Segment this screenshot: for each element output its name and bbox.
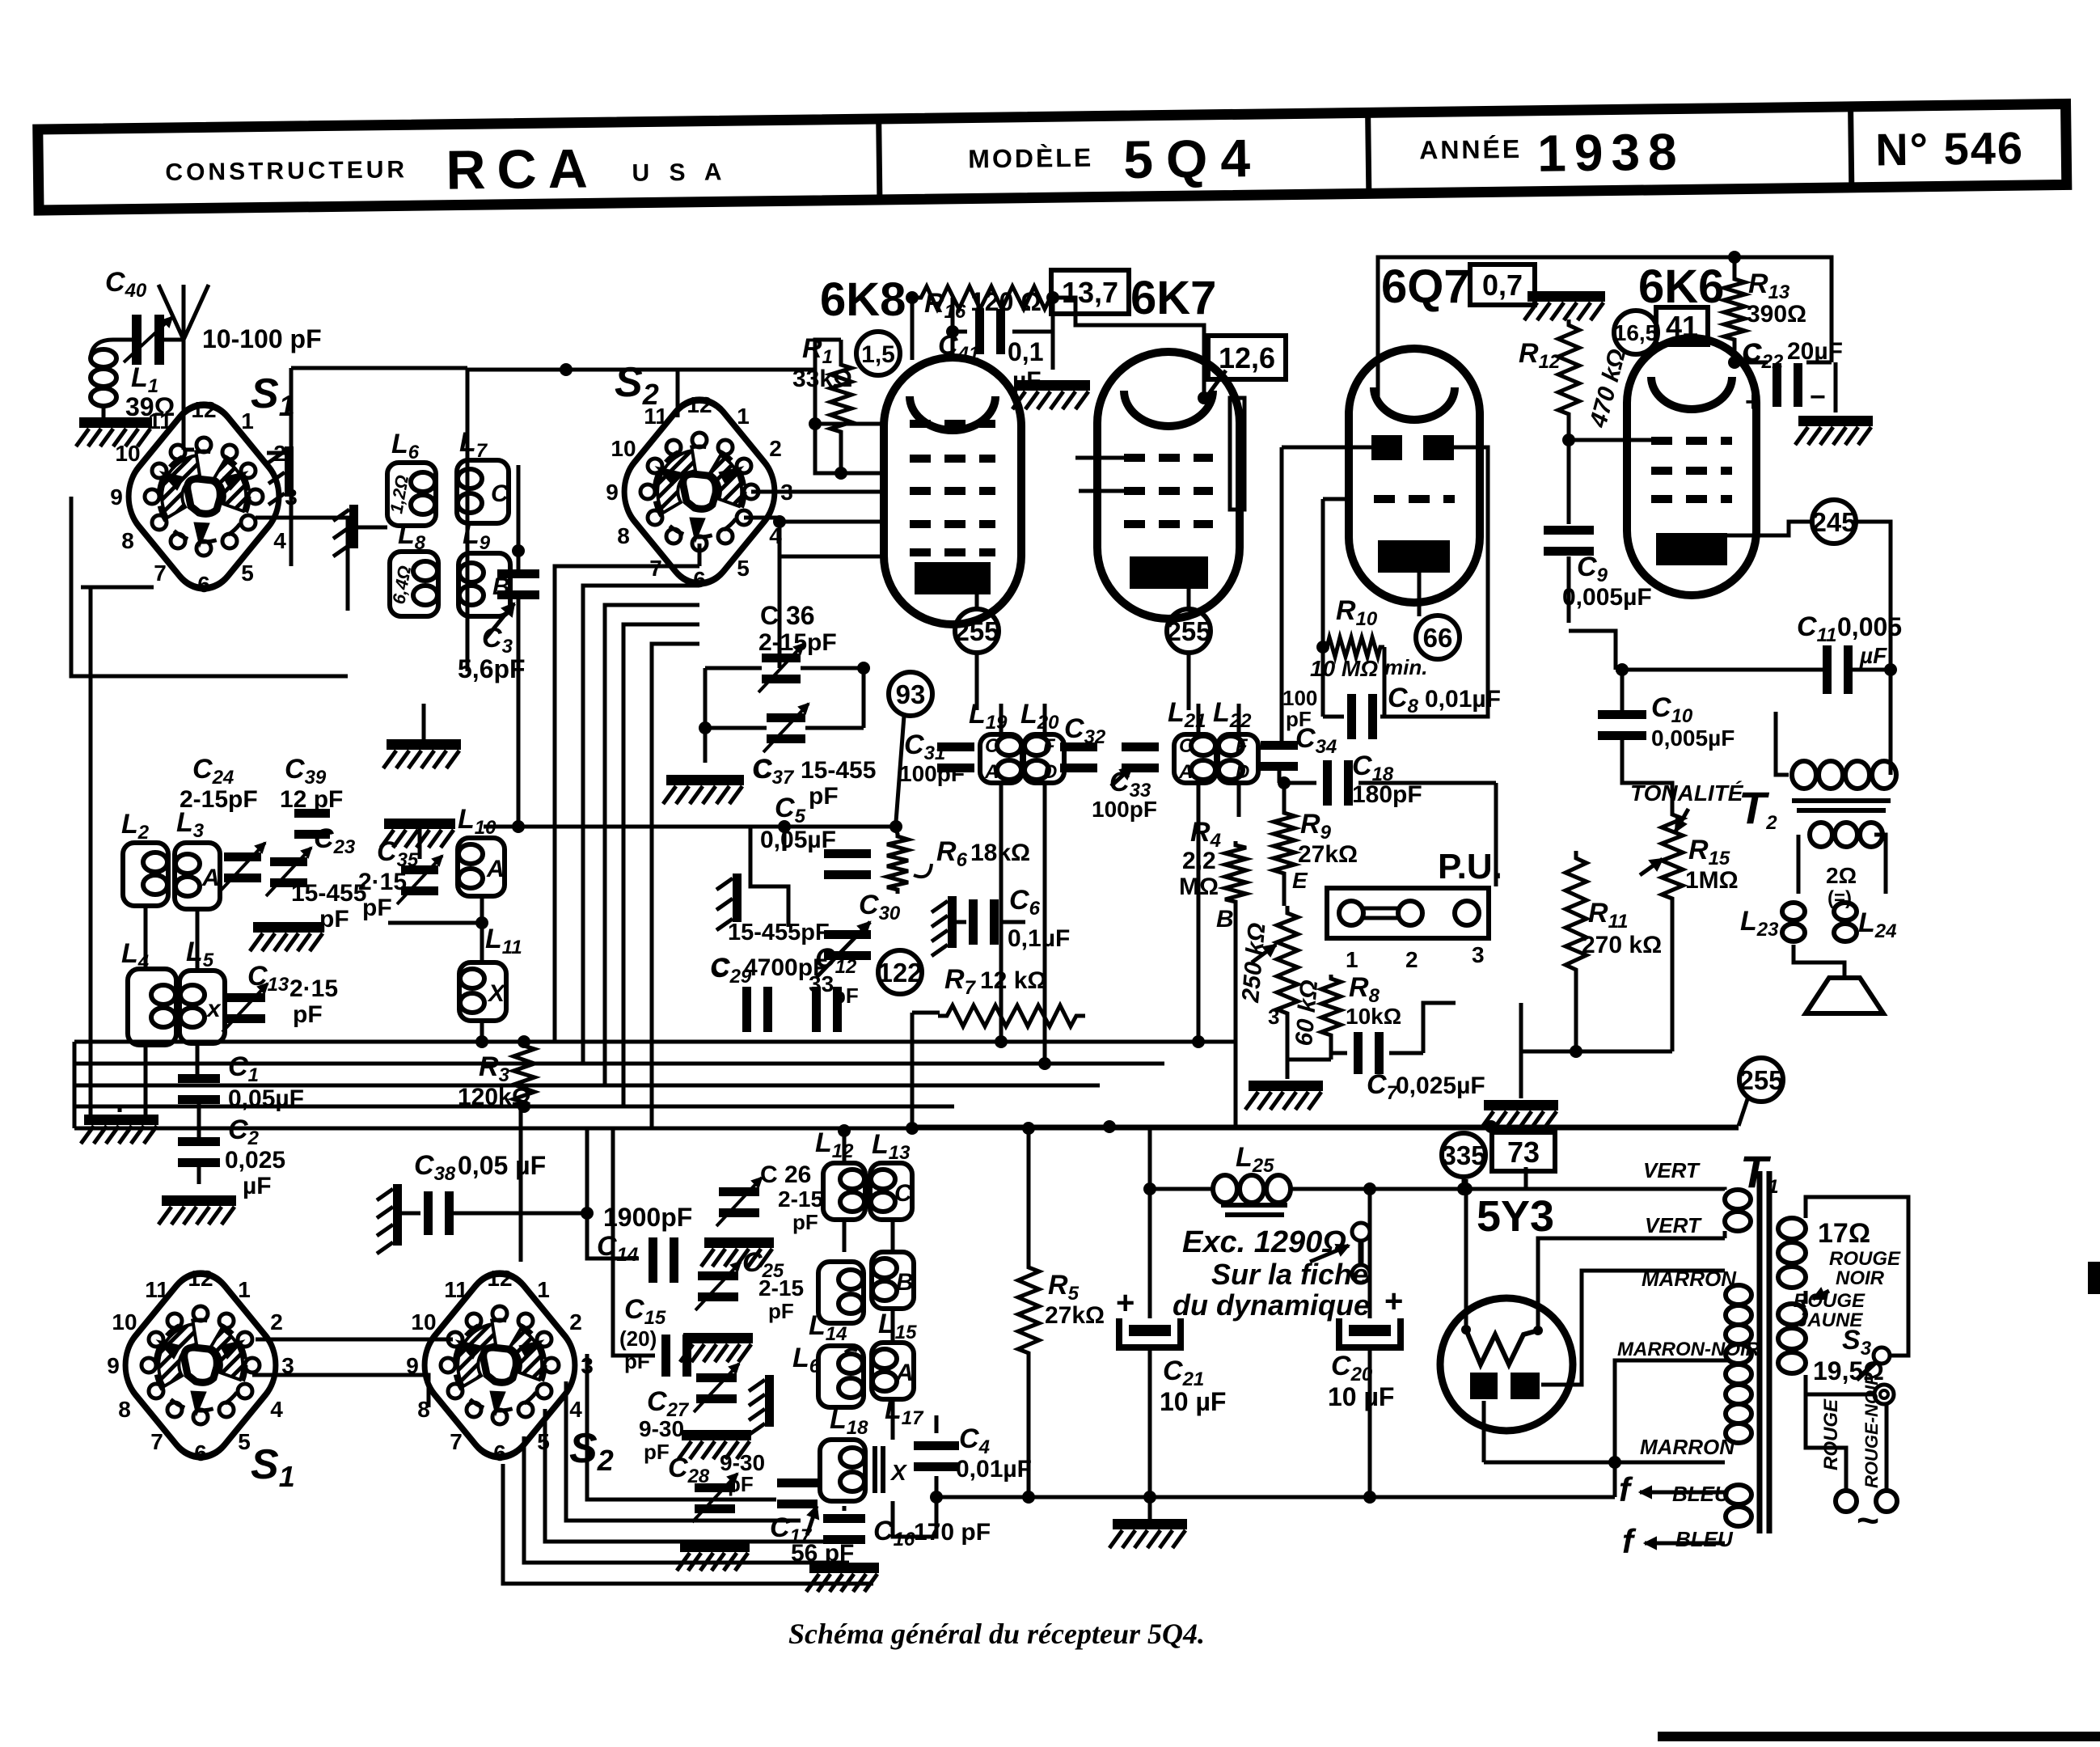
svg-text:(20): (20) — [619, 1326, 657, 1351]
trimmer C28 — [668, 1450, 765, 1522]
capacitor C34 — [1261, 686, 1337, 771]
svg-text:−: − — [1810, 382, 1826, 412]
border frame — [1658, 1262, 2100, 1741]
capacitor C21 — [1116, 1285, 1226, 1416]
circle 66 — [1416, 615, 1460, 659]
ground under C23 — [250, 922, 324, 951]
svg-text:5Q4: 5Q4 — [1123, 128, 1264, 189]
svg-text:10: 10 — [611, 436, 636, 461]
svg-text:pF: pF — [293, 1001, 323, 1028]
wire T1 primary — [1806, 1197, 1908, 1491]
svg-text:pF: pF — [644, 1440, 670, 1464]
coil L22 — [1213, 697, 1258, 783]
svg-text:RCA: RCA — [446, 137, 599, 201]
svg-text:C 36: C 36 — [760, 601, 815, 630]
variable capacitor C37 — [752, 704, 876, 810]
coil L19 — [969, 699, 1022, 783]
coil L17 — [872, 1343, 924, 1429]
svg-text:170 pF: 170 pF — [914, 1519, 991, 1546]
coil L5 — [180, 937, 225, 1043]
capacitor C29 — [710, 953, 827, 1032]
svg-text:2: 2 — [270, 1309, 283, 1335]
label ROUGE JAUNE — [1794, 1290, 1865, 1331]
capacitor C10 — [1598, 692, 1735, 751]
svg-text:6K8: 6K8 — [820, 273, 906, 326]
svg-text:µF: µF — [243, 1173, 272, 1199]
svg-text:MARRON: MARRON — [1640, 1435, 1735, 1459]
circle 93 — [889, 672, 932, 822]
potentiometer R15 1MΩ — [1640, 809, 1739, 904]
svg-text:5Y3: 5Y3 — [1477, 1192, 1554, 1241]
svg-text:0,05µF: 0,05µF — [760, 827, 836, 853]
svg-text:ROUGE: ROUGE — [1820, 1398, 1842, 1470]
chassis plate C38 — [377, 1184, 420, 1254]
core X L18 — [875, 1446, 908, 1493]
svg-text:6Q7: 6Q7 — [1381, 260, 1470, 313]
capacitor C8 — [1347, 683, 1501, 739]
ground under C22 — [1795, 416, 1873, 445]
svg-text:A: A — [984, 761, 999, 783]
svg-text:100pF: 100pF — [1092, 797, 1157, 822]
svg-text:C: C — [491, 480, 509, 507]
header title box — [38, 104, 2067, 210]
ground 6K7 left — [1012, 380, 1090, 409]
svg-text:390Ω: 390Ω — [1747, 301, 1806, 328]
svg-text:13,7: 13,7 — [1062, 276, 1118, 309]
svg-text:4: 4 — [270, 1397, 283, 1422]
svg-text:pF: pF — [362, 895, 392, 921]
resistor R3 — [458, 1042, 535, 1110]
ground pot — [1245, 1081, 1323, 1110]
svg-text:VERT: VERT — [1645, 1213, 1702, 1237]
svg-text:335: 335 — [1441, 1140, 1485, 1170]
svg-text:12: 12 — [487, 1266, 512, 1291]
svg-text:11: 11 — [145, 1277, 169, 1302]
svg-text:X: X — [889, 1460, 908, 1485]
svg-text:12: 12 — [687, 392, 712, 417]
svg-text:8: 8 — [617, 523, 630, 548]
ground right — [1481, 1100, 1558, 1129]
coil L2 — [121, 809, 168, 906]
label TONALITE — [1630, 780, 1744, 831]
T2 primary — [1792, 761, 1896, 810]
capacitor C32 — [1060, 713, 1106, 772]
coil L21 — [1168, 697, 1216, 783]
capacitor C5 — [760, 793, 871, 879]
svg-text:+: + — [1116, 1285, 1135, 1321]
coil L15 — [872, 1252, 917, 1343]
svg-text:0,05 µF: 0,05 µF — [458, 1151, 546, 1180]
coil L13 — [870, 1129, 913, 1220]
T1 winding 17Ω (primary top) — [1778, 1218, 1870, 1288]
ground above C35 — [381, 819, 455, 859]
coil L23 — [1740, 903, 1805, 941]
rotary switch S1 (top) — [110, 370, 298, 606]
coil L16 — [792, 1343, 864, 1407]
pickup P.U. — [1327, 847, 1502, 972]
chassis plate C30 — [716, 873, 742, 930]
antenna — [158, 285, 209, 450]
svg-text:4: 4 — [569, 1397, 582, 1422]
wire C36 loop — [699, 544, 870, 763]
ground above R12 — [1524, 291, 1605, 320]
svg-text:(=): (=) — [1827, 887, 1852, 909]
svg-text:180pF: 180pF — [1352, 781, 1422, 808]
T2 secondary — [1810, 823, 1882, 847]
trimmer C13 — [222, 961, 338, 1032]
svg-text:16,5: 16,5 — [1614, 320, 1658, 345]
svg-text:ROUGE: ROUGE — [1829, 1248, 1901, 1270]
svg-text:27kΩ: 27kΩ — [1045, 1302, 1105, 1329]
svg-text:VERT: VERT — [1643, 1158, 1701, 1182]
coil L11 — [388, 896, 522, 1042]
svg-text:2: 2 — [1405, 947, 1418, 972]
coil L1 — [91, 340, 175, 421]
svg-text:33: 33 — [809, 971, 834, 996]
capacitor C36 — [758, 601, 837, 692]
svg-text:Schéma général du récepteur: Schéma général du récepteur 5Q4. — [788, 1618, 1205, 1650]
resistor R16 120Ω — [912, 286, 1059, 323]
svg-text:E: E — [1292, 868, 1308, 893]
svg-text:Sur la fiche: Sur la fiche — [1211, 1258, 1368, 1291]
coil L24 — [1826, 863, 1896, 942]
coil L14 — [809, 1262, 864, 1345]
svg-text:1,5: 1,5 — [861, 341, 895, 368]
caption — [788, 1618, 1205, 1650]
svg-text:A: A — [201, 865, 220, 891]
svg-text:B: B — [1216, 906, 1234, 933]
ground under C27 — [678, 1430, 751, 1459]
capacitor C16 — [823, 1514, 991, 1550]
svg-text:12: 12 — [188, 1266, 213, 1291]
svg-text:6: 6 — [194, 1440, 207, 1466]
capacitor C11 — [1797, 611, 1902, 694]
svg-text:0,1: 0,1 — [1008, 337, 1043, 366]
svg-text:2-15: 2-15 — [758, 1275, 804, 1301]
box 12,6 — [1208, 336, 1286, 379]
box 0,7 — [1470, 264, 1535, 305]
svg-text:9: 9 — [606, 480, 619, 505]
svg-text:1: 1 — [737, 404, 750, 429]
svg-text:0,025µF: 0,025µF — [1396, 1072, 1485, 1099]
coil L9 — [458, 519, 510, 616]
label ROUGE vertical — [1820, 1398, 1842, 1470]
svg-text:10-100 pF: 10-100 pF — [202, 324, 322, 353]
svg-text:1: 1 — [537, 1277, 550, 1302]
svg-text:3: 3 — [1472, 942, 1485, 967]
svg-text:122: 122 — [877, 958, 922, 988]
svg-text:+: + — [1745, 387, 1761, 417]
svg-text:15-455pF: 15-455pF — [728, 920, 830, 945]
svg-text:7: 7 — [450, 1429, 463, 1454]
trimmer C23 — [266, 823, 356, 896]
capacitor C4 — [914, 1423, 1032, 1483]
circle 122 — [877, 950, 922, 994]
resistor R1 33kΩ — [792, 333, 852, 437]
svg-text:pF: pF — [768, 1299, 794, 1323]
svg-text:+: + — [1384, 1284, 1403, 1319]
svg-text:8: 8 — [121, 528, 134, 553]
coil L7 — [457, 427, 509, 523]
capacitor C2 — [178, 1115, 285, 1199]
coil L25 — [1164, 1142, 1375, 1215]
T1 winding BLEU (fil) — [1672, 1482, 1751, 1551]
speaker cone — [1806, 978, 1883, 1013]
wire left bus — [71, 587, 123, 1262]
chassis plate (L6) — [333, 505, 387, 556]
box 41 — [1656, 307, 1708, 345]
svg-text:10: 10 — [115, 441, 140, 466]
svg-text:1MΩ: 1MΩ — [1685, 867, 1739, 894]
wire 6Q7 diode plates — [1282, 447, 1488, 741]
svg-text:5: 5 — [241, 560, 254, 586]
svg-text:10 µF: 10 µF — [1160, 1387, 1226, 1416]
rectifier tube 5Y3 — [1440, 1192, 1573, 1431]
svg-text:pF: pF — [624, 1349, 650, 1373]
svg-text:255: 255 — [954, 616, 999, 646]
svg-text:X: X — [487, 980, 506, 1007]
svg-text:10: 10 — [112, 1309, 137, 1335]
svg-text:1900pF: 1900pF — [603, 1203, 692, 1232]
tube 6K6 — [1627, 260, 1756, 595]
svg-text:2: 2 — [769, 436, 782, 461]
rotary switch S2 (bottom) — [406, 1256, 614, 1477]
capacitor C1 — [178, 1051, 304, 1112]
svg-text:9: 9 — [110, 484, 123, 510]
svg-text:C: C — [1179, 735, 1194, 757]
ground C21 — [1109, 1519, 1187, 1548]
svg-text:0,7: 0,7 — [1482, 269, 1523, 302]
circle 255 (output) — [1739, 1058, 1784, 1126]
svg-text:MODÈLE: MODÈLE — [968, 143, 1093, 174]
svg-text:2·15: 2·15 — [289, 975, 338, 1002]
coil L8 — [388, 519, 438, 616]
resistor R13 390Ω — [1724, 269, 1806, 344]
capacitor C7 — [1354, 1032, 1485, 1104]
capacitor C6 — [957, 885, 1070, 952]
tube 6K7 — [1097, 272, 1240, 619]
svg-text:D: D — [1236, 761, 1249, 783]
ground left — [81, 1115, 158, 1144]
svg-text:0,01µF: 0,01µF — [1425, 686, 1501, 713]
svg-text:10: 10 — [411, 1309, 436, 1335]
svg-text:2-15pF: 2-15pF — [758, 629, 837, 656]
trimmer C26 — [716, 1161, 823, 1234]
transformer T2 label — [1739, 782, 1777, 834]
ground under C26 — [701, 1237, 774, 1267]
capacitor C3 — [458, 544, 539, 683]
svg-text:~: ~ — [1857, 1500, 1879, 1542]
chassis plate C6 — [932, 896, 957, 956]
capacitor C39 — [280, 754, 343, 839]
T1 winding VERT (HT sec top) — [1464, 1158, 1751, 1238]
chassis plate L16 — [749, 1375, 774, 1435]
svg-text:9-30: 9-30 — [639, 1416, 684, 1441]
svg-text:BLEU: BLEU — [1675, 1527, 1734, 1551]
svg-text:U S A: U S A — [632, 159, 728, 186]
coil L10 — [458, 804, 505, 896]
label Exc — [1173, 1225, 1370, 1322]
svg-text:41: 41 — [1666, 310, 1698, 343]
ground under C2 — [158, 1195, 236, 1225]
svg-text:11: 11 — [444, 1277, 468, 1302]
wire main runs — [521, 251, 1897, 1537]
svg-text:8: 8 — [118, 1397, 131, 1422]
svg-text:2-15: 2-15 — [778, 1187, 823, 1212]
svg-text:F: F — [1236, 735, 1249, 757]
wire L2-L4 — [146, 906, 199, 1184]
svg-text:pF: pF — [833, 983, 859, 1008]
svg-text:4: 4 — [273, 528, 286, 553]
wire bottom nest — [201, 1339, 873, 1584]
svg-text:255: 255 — [1166, 616, 1211, 646]
svg-text:11: 11 — [148, 408, 172, 434]
capacitor C38 — [414, 1150, 594, 1235]
svg-text:3: 3 — [1268, 1005, 1279, 1029]
svg-text:C 26: C 26 — [760, 1161, 811, 1188]
resistor R6 18kΩ — [887, 833, 1030, 894]
label ROUGE NOIR — [1813, 1248, 1901, 1299]
capacitor C41 — [938, 309, 1043, 394]
potentiometer 250kΩ — [1237, 906, 1298, 1029]
coil L3 — [175, 807, 220, 909]
coil L20 — [1020, 699, 1064, 783]
resistor 60kΩ label — [1291, 979, 1323, 1047]
svg-text:10 MΩ: 10 MΩ — [1310, 656, 1378, 681]
svg-text:2·15: 2·15 — [358, 869, 407, 895]
svg-text:ANNÉE: ANNÉE — [1419, 134, 1522, 165]
svg-text:A: A — [1178, 761, 1193, 783]
svg-text:B: B — [896, 1269, 914, 1296]
svg-text:255: 255 — [1739, 1065, 1783, 1095]
circle 255 (6K7) — [1166, 609, 1211, 653]
svg-text:0,025: 0,025 — [225, 1147, 285, 1174]
svg-text:2: 2 — [569, 1309, 582, 1335]
connector plug — [1310, 1223, 1370, 1283]
svg-text:N° 546: N° 546 — [1875, 122, 2025, 175]
svg-text:7: 7 — [154, 560, 167, 586]
svg-text:93: 93 — [896, 679, 926, 709]
svg-text:pF: pF — [728, 1472, 754, 1496]
chassis plate S1 — [268, 446, 294, 505]
capacitor C12 — [809, 943, 859, 1032]
T1 winding MARRON (fil 5Y3) — [1617, 1267, 1760, 1459]
label ROUGE-NOIR vertical — [1861, 1373, 1882, 1488]
capacitor C9 — [1544, 526, 1652, 611]
svg-text:2-15pF: 2-15pF — [180, 786, 258, 813]
svg-text:C: C — [985, 735, 999, 757]
capacitor C18 — [1323, 751, 1422, 808]
svg-text:1: 1 — [238, 1277, 251, 1302]
svg-text:1: 1 — [1346, 947, 1358, 972]
label E B — [1216, 868, 1308, 933]
resistor R8 10kΩ — [1321, 972, 1401, 1039]
ground under L8 — [383, 704, 461, 768]
svg-text:0,1µF: 0,1µF — [1008, 925, 1070, 952]
svg-text:MARRON-NOIR: MARRON-NOIR — [1617, 1339, 1760, 1360]
arrow f bottom — [1622, 1522, 1725, 1560]
T1 winding 19,5Ω (primary bottom) — [1778, 1304, 1884, 1385]
svg-text:A: A — [895, 1360, 914, 1386]
svg-text:du dynamique: du dynamique — [1173, 1288, 1370, 1322]
svg-text:5: 5 — [737, 556, 750, 581]
svg-text:0,01µF: 0,01µF — [956, 1456, 1032, 1483]
coil L6 — [386, 429, 436, 526]
svg-text:min.: min. — [1384, 655, 1427, 679]
svg-text:6: 6 — [493, 1440, 506, 1466]
tube 6K8 — [820, 273, 1021, 624]
circle 1,5 — [856, 332, 900, 375]
svg-text:9: 9 — [107, 1353, 120, 1378]
resistor R9 27kΩ — [1274, 809, 1358, 878]
svg-text:ROUGE-NOIR: ROUGE-NOIR — [1861, 1373, 1882, 1488]
svg-text:D: D — [1043, 761, 1057, 783]
circle 255 (6K8) — [954, 609, 999, 653]
ground under C25 — [680, 1333, 753, 1362]
svg-text:pF: pF — [792, 1210, 818, 1234]
svg-text:0,005µF: 0,005µF — [1562, 584, 1652, 611]
capacitor C17 — [770, 1478, 854, 1567]
circle 245 — [1811, 500, 1856, 544]
svg-text:1938: 1938 — [1537, 122, 1685, 182]
capacitor C40 — [105, 267, 322, 365]
box 73 — [1492, 1132, 1555, 1171]
svg-text:15-455: 15-455 — [291, 880, 366, 907]
svg-text:27kΩ: 27kΩ — [1298, 841, 1358, 868]
svg-text:6: 6 — [197, 572, 210, 597]
svg-text:6: 6 — [693, 567, 706, 592]
svg-text:5: 5 — [238, 1429, 251, 1454]
label 15-455 pF — [291, 880, 366, 933]
svg-text:F: F — [1043, 735, 1056, 757]
resistor R4 2,2MΩ — [1179, 817, 1246, 906]
coil L4 — [121, 938, 176, 1045]
svg-text:10 µF: 10 µF — [1328, 1382, 1394, 1411]
circle 16,5 — [1614, 311, 1658, 354]
svg-text:15-455: 15-455 — [801, 757, 876, 784]
wire bus left — [74, 1035, 1739, 1128]
capacitor C20 — [1328, 1284, 1403, 1411]
resistor R12 470kΩ — [1519, 319, 1631, 431]
svg-text:CONSTRUCTEUR: CONSTRUCTEUR — [165, 156, 408, 186]
trimmer C25 — [695, 1247, 804, 1323]
tube 6Q7 — [1349, 260, 1480, 603]
svg-text:P.U.: P.U. — [1438, 847, 1502, 886]
svg-text:73: 73 — [1507, 1136, 1540, 1169]
trimmer C35 — [358, 836, 442, 921]
svg-text:270 kΩ: 270 kΩ — [1582, 932, 1662, 958]
resistor R7 12kΩ — [938, 964, 1085, 1026]
resistor R10 10MΩ — [1310, 595, 1427, 681]
T1 core — [1760, 1171, 1769, 1533]
svg-text:0,005µF: 0,005µF — [1651, 725, 1735, 751]
svg-text:66: 66 — [1423, 623, 1453, 653]
coil L12 — [815, 1127, 865, 1220]
svg-text:12,6: 12,6 — [1219, 341, 1275, 374]
circle 335 — [1441, 1133, 1485, 1177]
svg-text:12: 12 — [191, 397, 216, 422]
arrow f top — [1619, 1470, 1725, 1508]
trimmer C27 — [639, 1364, 739, 1464]
resistor R5 27kΩ — [1018, 1262, 1105, 1359]
svg-text:x: x — [205, 996, 222, 1022]
svg-text:100pF: 100pF — [899, 761, 965, 786]
svg-text:17Ω: 17Ω — [1818, 1218, 1870, 1249]
wire S1 frame — [71, 368, 348, 676]
transformer T1 label — [1740, 1146, 1779, 1198]
ground under C28 — [677, 1542, 750, 1571]
capacitor C31 — [899, 730, 974, 786]
